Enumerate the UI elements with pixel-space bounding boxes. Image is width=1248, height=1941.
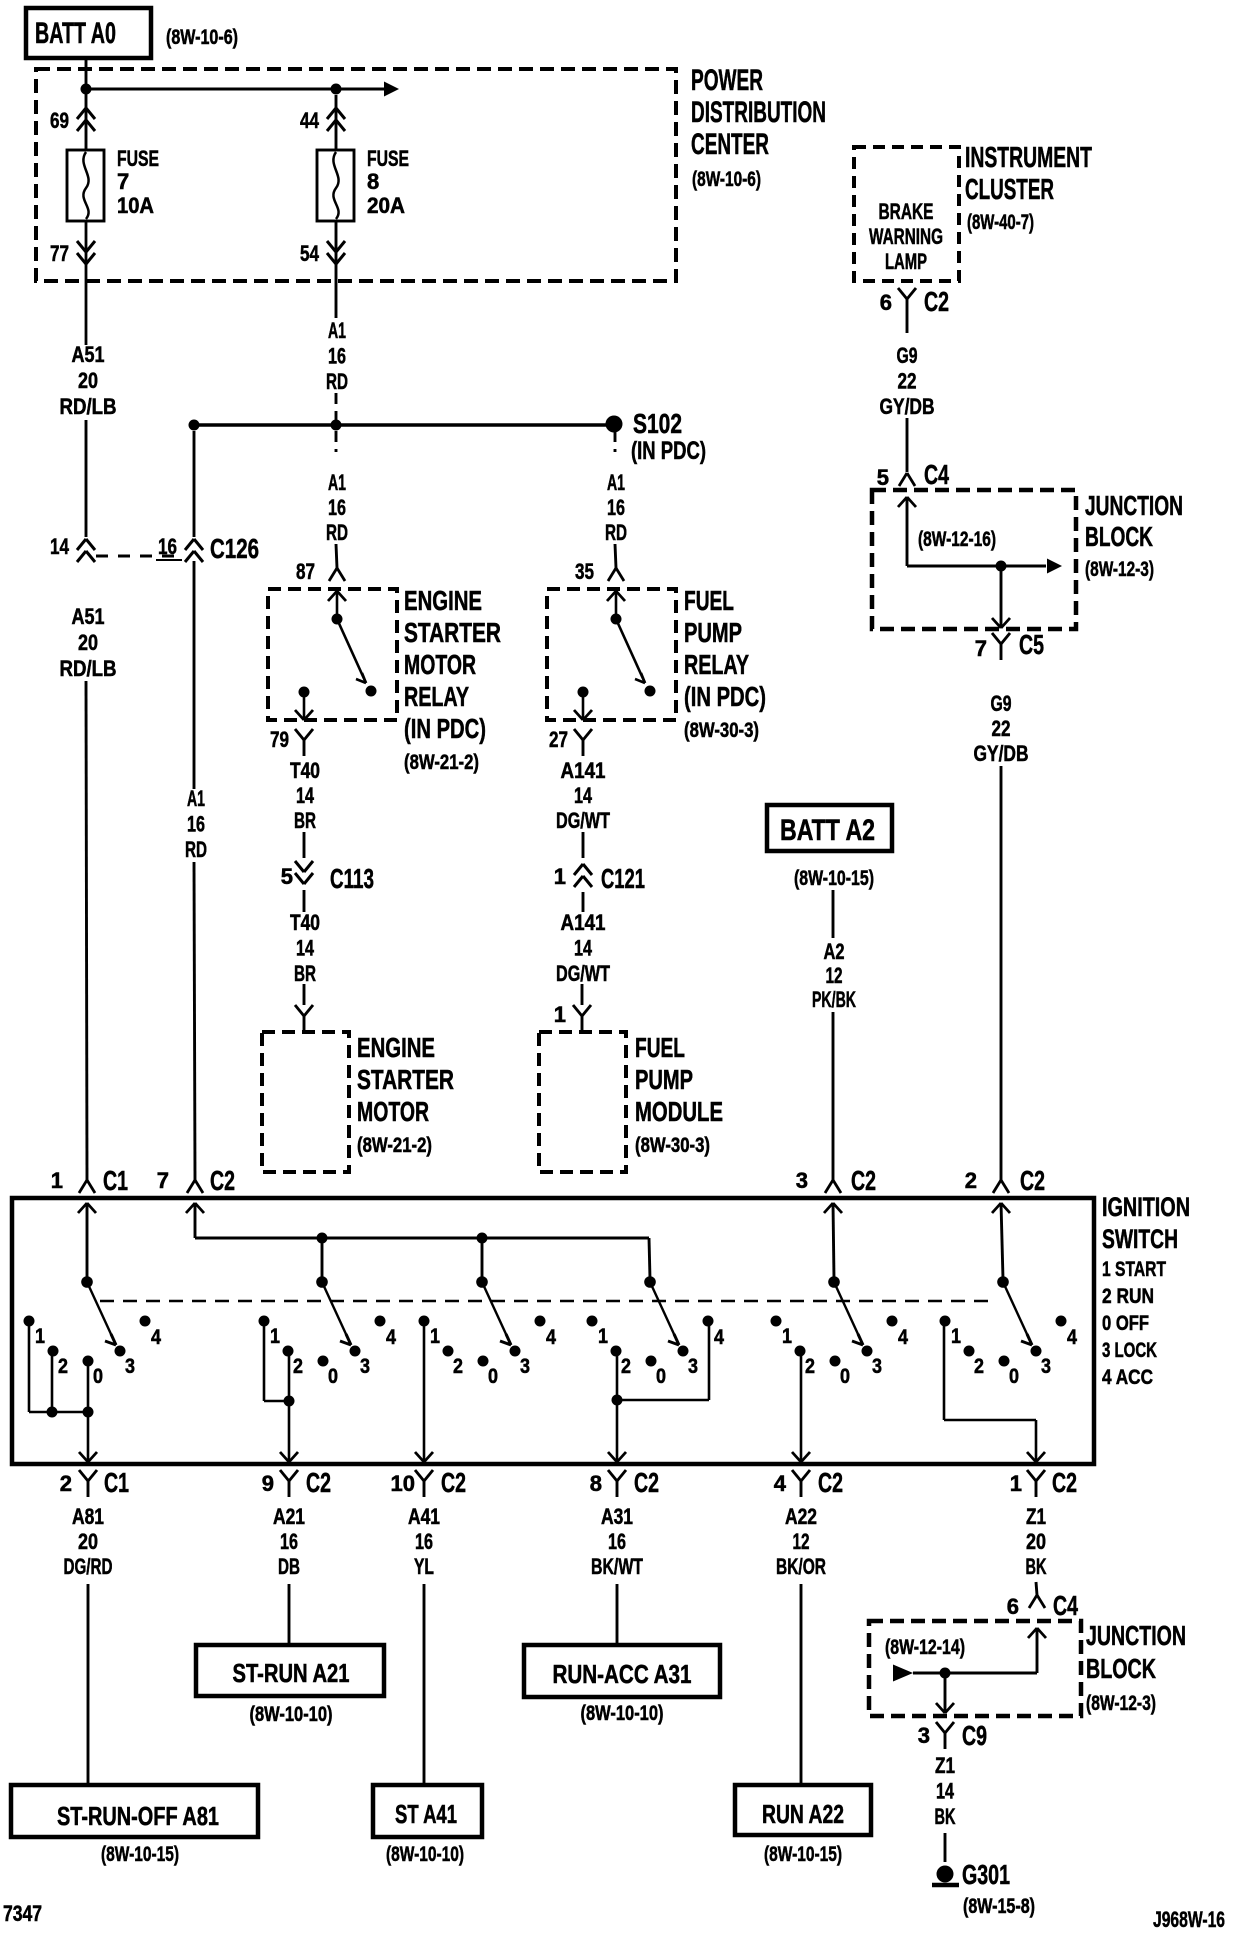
svg-text:C2: C2 xyxy=(1020,1165,1045,1196)
svg-text:1: 1 xyxy=(51,1168,63,1193)
svg-text:(8W-10-10): (8W-10-10) xyxy=(581,1702,664,1725)
svg-text:20: 20 xyxy=(78,630,98,655)
svg-text:3: 3 xyxy=(796,1168,808,1193)
svg-text:GY/DB: GY/DB xyxy=(880,394,935,419)
svg-text:20: 20 xyxy=(78,368,98,393)
svg-text:Z1: Z1 xyxy=(935,1753,955,1778)
svg-text:4: 4 xyxy=(151,1326,161,1349)
svg-text:FUSE: FUSE xyxy=(117,146,159,171)
svg-text:(IN PDC): (IN PDC) xyxy=(404,713,486,744)
svg-text:(8W-10-10): (8W-10-10) xyxy=(250,1703,333,1726)
svg-text:20: 20 xyxy=(1026,1529,1046,1554)
svg-text:(8W-10-10): (8W-10-10) xyxy=(386,1843,464,1866)
svg-text:14: 14 xyxy=(296,936,315,961)
svg-text:FUEL: FUEL xyxy=(684,585,734,616)
svg-text:(8W-40-7): (8W-40-7) xyxy=(967,211,1034,234)
svg-text:2: 2 xyxy=(621,1355,631,1378)
svg-text:CLUSTER: CLUSTER xyxy=(965,174,1054,206)
svg-text:RD: RD xyxy=(605,520,627,545)
svg-text:2: 2 xyxy=(965,1168,977,1193)
svg-text:C113: C113 xyxy=(330,863,374,894)
svg-text:SWITCH: SWITCH xyxy=(1102,1224,1178,1254)
svg-text:0: 0 xyxy=(656,1365,666,1388)
svg-text:16: 16 xyxy=(280,1529,298,1554)
svg-text:(8W-10-6): (8W-10-6) xyxy=(166,26,238,49)
svg-text:IGNITION: IGNITION xyxy=(1102,1192,1190,1222)
svg-text:STARTER: STARTER xyxy=(404,617,501,648)
svg-text:3 LOCK: 3 LOCK xyxy=(1102,1339,1157,1362)
svg-text:1: 1 xyxy=(270,1325,280,1348)
svg-text:MOTOR: MOTOR xyxy=(357,1096,429,1127)
svg-text:A41: A41 xyxy=(408,1504,440,1529)
svg-text:7: 7 xyxy=(975,636,987,661)
svg-text:BK/WT: BK/WT xyxy=(591,1554,643,1579)
svg-text:C2: C2 xyxy=(851,1165,876,1196)
svg-text:A141: A141 xyxy=(561,910,606,935)
svg-text:BK/OR: BK/OR xyxy=(776,1554,826,1579)
svg-text:20: 20 xyxy=(78,1529,98,1554)
svg-text:12: 12 xyxy=(793,1529,810,1554)
svg-text:1: 1 xyxy=(430,1325,440,1348)
svg-text:4: 4 xyxy=(714,1326,724,1349)
svg-text:PK/BK: PK/BK xyxy=(812,987,856,1012)
svg-text:BRAKE: BRAKE xyxy=(879,199,934,224)
svg-text:(8W-12-3): (8W-12-3) xyxy=(1085,558,1154,581)
svg-text:5: 5 xyxy=(877,465,889,490)
svg-text:RD: RD xyxy=(185,837,207,862)
svg-text:0: 0 xyxy=(488,1365,498,1388)
svg-text:C2: C2 xyxy=(634,1467,659,1498)
svg-text:4: 4 xyxy=(898,1326,908,1349)
svg-text:BK: BK xyxy=(935,1804,956,1829)
svg-text:C126: C126 xyxy=(210,533,259,564)
svg-text:(IN PDC): (IN PDC) xyxy=(631,437,706,465)
svg-text:ENGINE: ENGINE xyxy=(404,585,482,616)
svg-text:A51: A51 xyxy=(72,342,105,367)
svg-text:DISTRIBUTION: DISTRIBUTION xyxy=(691,96,826,129)
svg-text:FUSE: FUSE xyxy=(367,146,409,171)
svg-text:6: 6 xyxy=(1007,1594,1019,1619)
svg-text:(8W-12-16): (8W-12-16) xyxy=(918,528,996,551)
svg-text:DB: DB xyxy=(278,1554,300,1579)
svg-text:35: 35 xyxy=(575,559,594,584)
svg-text:S102: S102 xyxy=(633,408,682,439)
svg-text:1: 1 xyxy=(951,1325,961,1348)
svg-text:69: 69 xyxy=(50,108,69,133)
svg-text:4: 4 xyxy=(386,1326,396,1349)
svg-text:16: 16 xyxy=(328,495,346,520)
svg-text:79: 79 xyxy=(270,727,289,752)
svg-text:3: 3 xyxy=(360,1355,370,1378)
svg-text:14: 14 xyxy=(574,936,593,961)
svg-text:JUNCTION: JUNCTION xyxy=(1085,490,1183,521)
svg-text:(8W-15-8): (8W-15-8) xyxy=(963,1895,1035,1918)
svg-text:(8W-10-15): (8W-10-15) xyxy=(794,867,874,890)
svg-text:C2: C2 xyxy=(306,1467,331,1498)
svg-text:C9: C9 xyxy=(962,1720,987,1751)
svg-text:CENTER: CENTER xyxy=(691,128,769,161)
svg-text:54: 54 xyxy=(300,241,320,266)
svg-text:1: 1 xyxy=(35,1325,45,1348)
svg-text:C1: C1 xyxy=(103,1165,128,1196)
svg-text:2: 2 xyxy=(805,1355,815,1378)
svg-text:T40: T40 xyxy=(290,758,320,783)
svg-text:BR: BR xyxy=(294,961,316,986)
svg-text:8: 8 xyxy=(590,1471,602,1496)
svg-text:27: 27 xyxy=(549,727,568,752)
svg-text:A1: A1 xyxy=(328,470,346,495)
svg-text:A22: A22 xyxy=(785,1504,817,1529)
svg-text:A81: A81 xyxy=(72,1504,104,1529)
svg-text:BATT A2: BATT A2 xyxy=(780,814,875,847)
svg-text:LAMP: LAMP xyxy=(885,249,927,274)
svg-text:4: 4 xyxy=(546,1326,556,1349)
svg-text:A21: A21 xyxy=(273,1504,305,1529)
svg-text:0: 0 xyxy=(328,1365,338,1388)
svg-text:16: 16 xyxy=(328,344,346,369)
svg-text:4: 4 xyxy=(1067,1326,1077,1349)
svg-text:C4: C4 xyxy=(1053,1590,1078,1621)
svg-text:(8W-10-6): (8W-10-6) xyxy=(692,168,761,191)
svg-text:(8W-10-15): (8W-10-15) xyxy=(101,1843,179,1866)
svg-text:ENGINE: ENGINE xyxy=(357,1032,435,1063)
svg-text:RD/LB: RD/LB xyxy=(60,394,117,419)
svg-text:77: 77 xyxy=(50,241,69,266)
svg-text:G9: G9 xyxy=(991,691,1012,716)
svg-text:(8W-10-15): (8W-10-15) xyxy=(764,1843,842,1866)
svg-text:1 START: 1 START xyxy=(1102,1258,1166,1281)
svg-text:4: 4 xyxy=(774,1471,787,1496)
svg-text:DG/WT: DG/WT xyxy=(556,808,610,833)
svg-text:YL: YL xyxy=(414,1554,434,1579)
svg-text:2 RUN: 2 RUN xyxy=(1102,1285,1154,1308)
svg-text:(8W-21-2): (8W-21-2) xyxy=(404,751,479,774)
svg-text:16: 16 xyxy=(187,812,205,837)
svg-text:RD/LB: RD/LB xyxy=(60,656,117,681)
svg-text:C1: C1 xyxy=(104,1467,129,1498)
svg-text:GY/DB: GY/DB xyxy=(974,741,1029,766)
svg-text:RD: RD xyxy=(326,369,348,394)
svg-text:BR: BR xyxy=(294,808,316,833)
svg-text:C121: C121 xyxy=(601,863,645,894)
svg-text:22: 22 xyxy=(992,716,1011,741)
svg-text:0 OFF: 0 OFF xyxy=(1102,1312,1149,1335)
svg-text:BLOCK: BLOCK xyxy=(1085,521,1153,552)
svg-text:G9: G9 xyxy=(897,343,918,368)
svg-text:10A: 10A xyxy=(117,193,154,218)
svg-text:7: 7 xyxy=(157,1168,169,1193)
svg-text:6: 6 xyxy=(880,290,892,315)
svg-text:J968W-16: J968W-16 xyxy=(1153,1907,1225,1932)
svg-text:1: 1 xyxy=(1010,1471,1022,1496)
svg-text:7: 7 xyxy=(117,169,129,194)
svg-text:16: 16 xyxy=(415,1529,433,1554)
svg-text:10: 10 xyxy=(391,1471,415,1496)
svg-text:A141: A141 xyxy=(561,758,606,783)
svg-text:3: 3 xyxy=(918,1723,930,1748)
svg-text:22: 22 xyxy=(898,369,917,394)
svg-text:A31: A31 xyxy=(601,1504,633,1529)
svg-text:12: 12 xyxy=(826,963,843,988)
svg-text:4 ACC: 4 ACC xyxy=(1102,1366,1153,1389)
svg-text:C2: C2 xyxy=(441,1467,466,1498)
svg-text:C2: C2 xyxy=(818,1467,843,1498)
svg-text:ST-RUN A21: ST-RUN A21 xyxy=(233,1658,350,1688)
svg-text:14: 14 xyxy=(296,783,315,808)
svg-text:RELAY: RELAY xyxy=(404,681,469,712)
svg-text:A51: A51 xyxy=(72,604,105,629)
svg-text:RD: RD xyxy=(326,520,348,545)
svg-text:C4: C4 xyxy=(924,459,949,490)
svg-text:PUMP: PUMP xyxy=(684,617,742,648)
svg-text:MODULE: MODULE xyxy=(635,1096,723,1127)
svg-text:A2: A2 xyxy=(824,939,845,964)
svg-text:T40: T40 xyxy=(290,910,320,935)
svg-text:A1: A1 xyxy=(187,786,205,811)
svg-text:Z1: Z1 xyxy=(1026,1504,1046,1529)
svg-text:1: 1 xyxy=(598,1325,608,1348)
svg-text:3: 3 xyxy=(872,1355,882,1378)
svg-text:1: 1 xyxy=(554,864,566,889)
svg-text:BK: BK xyxy=(1026,1554,1047,1579)
svg-text:3: 3 xyxy=(1041,1355,1051,1378)
svg-text:RUN-ACC A31: RUN-ACC A31 xyxy=(553,1659,692,1689)
svg-text:JUNCTION: JUNCTION xyxy=(1086,1620,1186,1651)
svg-text:0: 0 xyxy=(840,1365,850,1388)
svg-text:7347: 7347 xyxy=(3,1901,42,1926)
svg-text:DG/WT: DG/WT xyxy=(556,961,610,986)
svg-text:3: 3 xyxy=(125,1355,135,1378)
svg-text:DG/RD: DG/RD xyxy=(64,1554,113,1579)
svg-text:1: 1 xyxy=(554,1002,566,1027)
svg-text:C2: C2 xyxy=(924,286,949,317)
svg-text:RUN A22: RUN A22 xyxy=(762,1799,844,1829)
svg-text:2: 2 xyxy=(453,1355,463,1378)
svg-text:MOTOR: MOTOR xyxy=(404,649,476,680)
svg-text:3: 3 xyxy=(520,1355,530,1378)
svg-text:16: 16 xyxy=(607,495,625,520)
svg-text:POWER: POWER xyxy=(691,64,763,97)
svg-text:9: 9 xyxy=(262,1471,274,1496)
svg-text:(8W-21-2): (8W-21-2) xyxy=(357,1134,432,1157)
svg-text:14: 14 xyxy=(50,534,70,559)
svg-text:20A: 20A xyxy=(367,193,405,218)
svg-text:BLOCK: BLOCK xyxy=(1086,1653,1156,1684)
svg-text:(8W-12-14): (8W-12-14) xyxy=(885,1636,965,1659)
svg-text:A1: A1 xyxy=(607,470,625,495)
svg-text:2: 2 xyxy=(293,1355,303,1378)
svg-text:FUEL: FUEL xyxy=(635,1032,685,1063)
svg-text:5: 5 xyxy=(281,864,293,889)
svg-text:0: 0 xyxy=(93,1365,103,1388)
svg-text:PUMP: PUMP xyxy=(635,1064,693,1095)
svg-text:16: 16 xyxy=(158,534,177,559)
svg-text:ST-RUN-OFF A81: ST-RUN-OFF A81 xyxy=(57,1801,219,1831)
svg-text:STARTER: STARTER xyxy=(357,1064,454,1095)
svg-text:87: 87 xyxy=(296,559,315,584)
svg-text:1: 1 xyxy=(782,1325,792,1348)
svg-text:16: 16 xyxy=(608,1529,626,1554)
svg-text:G301: G301 xyxy=(962,1859,1010,1890)
svg-text:0: 0 xyxy=(1009,1365,1019,1388)
svg-text:(8W-30-3): (8W-30-3) xyxy=(684,719,759,742)
svg-text:INSTRUMENT: INSTRUMENT xyxy=(965,142,1092,174)
svg-text:(8W-12-3): (8W-12-3) xyxy=(1086,1692,1156,1715)
svg-text:14: 14 xyxy=(574,783,593,808)
svg-text:2: 2 xyxy=(60,1471,72,1496)
svg-text:A1: A1 xyxy=(328,318,346,343)
svg-text:3: 3 xyxy=(688,1355,698,1378)
svg-text:C2: C2 xyxy=(1052,1467,1077,1498)
svg-text:2: 2 xyxy=(58,1355,68,1378)
svg-text:(IN PDC): (IN PDC) xyxy=(684,681,766,712)
svg-text:14: 14 xyxy=(936,1779,955,1804)
svg-text:WARNING: WARNING xyxy=(869,224,943,249)
svg-text:(8W-30-3): (8W-30-3) xyxy=(635,1134,710,1157)
svg-text:C5: C5 xyxy=(1019,629,1044,660)
svg-text:44: 44 xyxy=(300,108,320,133)
svg-text:C2: C2 xyxy=(210,1165,235,1196)
svg-text:8: 8 xyxy=(367,169,379,194)
svg-text:ST A41: ST A41 xyxy=(395,1799,457,1829)
svg-text:BATT A0: BATT A0 xyxy=(35,17,116,50)
svg-text:RELAY: RELAY xyxy=(684,649,749,680)
svg-text:2: 2 xyxy=(974,1355,984,1378)
